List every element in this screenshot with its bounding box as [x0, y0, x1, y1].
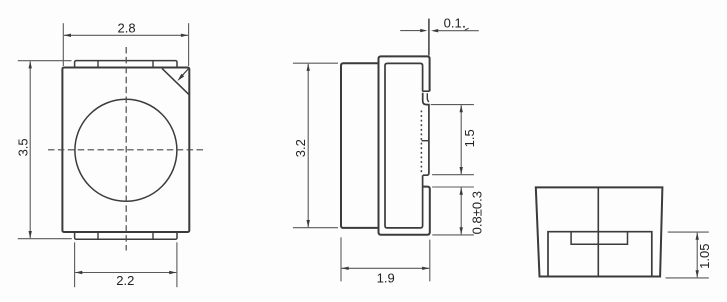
- dim 2.8 dimension line: [64, 34, 188, 36]
- lens circle: [75, 99, 177, 201]
- dim 0.8 bottom extension line: [432, 234, 474, 236]
- front view outer outline: [536, 187, 663, 276]
- dim 0.1 extension line: [428, 19, 430, 56]
- dim 3.2 bottom arrowhead: [307, 220, 310, 227]
- svg-text:0.1: 0.1: [444, 16, 462, 31]
- upper strip divider right: [152, 61, 154, 68]
- side view lead split line: [422, 140, 430, 142]
- dim 0.8 bottom arrowhead: [460, 227, 463, 234]
- dim 2.2 dimension line: [75, 272, 176, 274]
- dim 1.5 bottom arrowhead: [460, 167, 463, 174]
- dim 0.1 trailing dot: [463, 26, 465, 28]
- side view body back rectangle: [341, 63, 379, 228]
- dim 0.1 right arrowhead: [431, 29, 438, 32]
- dim 3.2 top arrowhead: [307, 64, 310, 71]
- front view lead plate: [548, 232, 652, 277]
- dim 2.8 left arrowhead: [64, 34, 71, 37]
- dim 0.8 top extension line: [432, 186, 474, 188]
- top view upper lead strip: [75, 61, 177, 68]
- dim 3.2 top extension line: [293, 62, 338, 64]
- dim 1.9 left extension line: [340, 237, 342, 281]
- dim 2.8 right arrowhead: [181, 34, 188, 37]
- dim 0.1 stray tick: [465, 28, 469, 30]
- dim 1.9 right extension line: [429, 240, 431, 282]
- dim 2.2 right arrowhead: [169, 271, 176, 274]
- dim 1.5 dimension line: [460, 105, 462, 174]
- dim 1.05 top arrowhead: [696, 233, 699, 240]
- chamfer leader line: [182, 68, 190, 76]
- dim 1.5 top arrowhead: [460, 105, 463, 112]
- side view lead bend inner surface: [427, 93, 429, 102]
- dim 3.5 bottom arrowhead: [29, 231, 32, 238]
- dim 2.2 left arrowhead: [75, 271, 82, 274]
- dim 2.8 left extension line: [62, 23, 64, 66]
- side view inner window: [385, 63, 423, 228]
- front view center parting line: [597, 187, 599, 276]
- front view lead notch: [571, 232, 627, 245]
- svg-text:1.5: 1.5: [462, 129, 477, 147]
- lower strip divider right: [152, 232, 154, 239]
- dim 2.8 right extension line: [188, 23, 190, 66]
- dim 3.5 top extension line: [18, 60, 72, 62]
- cathode chamfer line: [162, 68, 189, 94]
- dim 0.8 dimension line: [460, 188, 462, 235]
- top view body outline: [62, 68, 189, 233]
- side view lead tip bottom edge: [422, 90, 429, 92]
- dim 3.5 bottom extension line: [18, 238, 72, 240]
- dim 1.05 bottom arrowhead: [696, 270, 699, 277]
- side view lead outer contour: [379, 56, 430, 234]
- dim 1.9 right arrowhead: [422, 267, 429, 270]
- svg-text:2.8: 2.8: [118, 21, 136, 36]
- dim 0.8 top arrowhead: [460, 188, 463, 195]
- horizontal centerline: [48, 149, 204, 151]
- lower strip divider left: [97, 232, 99, 239]
- dim 1.5 bottom extension line: [432, 174, 474, 176]
- side view lead middle bend: [423, 93, 429, 175]
- upper strip divider left: [97, 61, 99, 68]
- dim 2.2 right extension line: [176, 242, 178, 287]
- dim 1.05 bottom extension line: [666, 277, 709, 279]
- svg-text:0.8±0.3: 0.8±0.3: [469, 191, 484, 234]
- dim 3.2 dimension line: [307, 64, 309, 228]
- svg-text:1.05: 1.05: [697, 244, 712, 269]
- dim 1.05 dimension line: [696, 233, 698, 278]
- chamfer leader arrowhead: [177, 74, 184, 81]
- dim 1.5 top extension line: [431, 104, 474, 106]
- top view lower lead strip: [75, 232, 177, 239]
- svg-text:2.2: 2.2: [116, 273, 134, 288]
- side view hidden edge dotted: [420, 111, 422, 174]
- dim 3.5 dimension line: [29, 61, 31, 238]
- dim 3.5 top arrowhead: [29, 61, 32, 68]
- dim 1.9 dimension line: [342, 267, 430, 269]
- vertical centerline: [125, 47, 127, 251]
- dim 0.1 left arrow line: [400, 30, 424, 32]
- dim 2.2 left extension line: [74, 242, 76, 287]
- dim 1.05 top extension line: [668, 231, 709, 233]
- svg-text:1.9: 1.9: [377, 270, 395, 285]
- dim 3.2 bottom extension line: [293, 227, 338, 229]
- svg-text:3.2: 3.2: [293, 139, 308, 157]
- dim 0.1 right arrow line: [434, 30, 479, 32]
- dim 1.9 left arrowhead: [342, 267, 349, 270]
- svg-text:3.5: 3.5: [15, 138, 30, 156]
- dim 0.1 left arrowhead: [420, 29, 427, 32]
